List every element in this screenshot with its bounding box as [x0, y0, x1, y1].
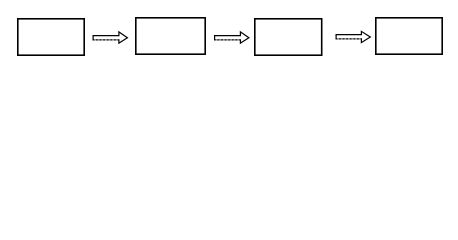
box 3 — [255, 19, 322, 55]
box 4 — [376, 18, 442, 54]
arrow 2 — [215, 32, 249, 43]
arrow 3 — [336, 31, 370, 42]
box 1 — [18, 19, 84, 55]
box 2 — [136, 18, 205, 54]
arrow 1 — [93, 32, 127, 43]
